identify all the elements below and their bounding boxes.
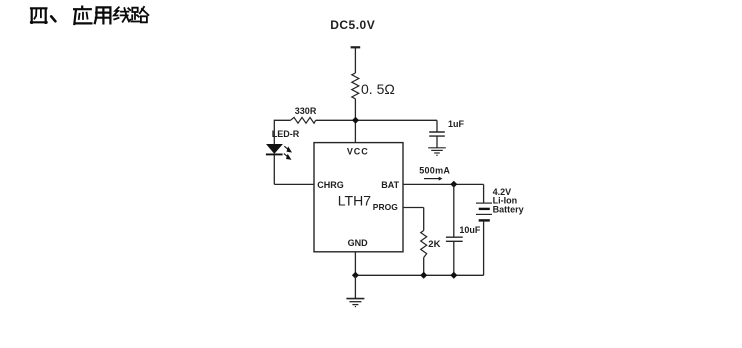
wire GND pin to bottom rail — [354, 252, 356, 275]
wire BAT pin to battery — [403, 183, 484, 185]
char 路 — [131, 7, 148, 22]
main horizontal wire (node A rail) — [274, 119, 437, 121]
svg-text:PROG: PROG — [373, 202, 398, 212]
wire terminal to resistor R1 — [354, 48, 356, 73]
svg-text:2K: 2K — [428, 239, 440, 250]
svg-text:1uF: 1uF — [448, 119, 465, 129]
svg-text:LTH7: LTH7 — [338, 192, 371, 208]
current arrow — [424, 178, 440, 180]
wire battery top stub — [483, 184, 485, 203]
svg-text:CHRG: CHRG — [317, 180, 344, 190]
svg-text:Battery: Battery — [493, 205, 524, 215]
resistor R2 330R (horizontal zigzag) — [291, 117, 316, 123]
svg-text:LED-R: LED-R — [272, 129, 300, 139]
wire ground stub — [354, 275, 356, 298]
resistor R1 0.5ohm (vertical zigzag) — [352, 73, 359, 99]
char 四 — [31, 8, 47, 23]
capacitor C1 1uF — [429, 132, 445, 136]
node B junction dot (BAT / C2) — [451, 182, 457, 188]
char 应 — [74, 7, 91, 24]
svg-text:0. 5Ω: 0. 5Ω — [361, 81, 395, 97]
wire node A rail to capacitor C1 — [436, 120, 438, 132]
svg-text:BAT: BAT — [381, 180, 399, 190]
DC input terminal — [351, 46, 361, 48]
wire LED cathode to CHRG pin — [274, 155, 314, 184]
op IC U1 LTH7 box — [314, 143, 403, 252]
svg-text:GND: GND — [348, 238, 369, 248]
ground (main) — [346, 299, 364, 307]
ideographic comma 、 — [51, 16, 55, 21]
resistor R3 2K (vertical zigzag) — [421, 231, 427, 258]
capacitor C2 10uF — [446, 237, 463, 241]
svg-text:10uF: 10uF — [459, 225, 481, 235]
title 四、应用线路 (drawn strokes) — [31, 7, 148, 24]
junction dot (C2 node) — [451, 272, 457, 278]
wire node B to capacitor C2 — [453, 184, 455, 237]
LED emission arrows — [284, 146, 291, 159]
wire node A rail to LED anode — [273, 120, 275, 145]
wire resistor R3 to bottom rail — [423, 258, 425, 276]
wire capacitor C1 to ground — [436, 136, 438, 147]
svg-text:330R: 330R — [295, 106, 317, 116]
svg-text:DC5.0V: DC5.0V — [330, 18, 375, 32]
svg-text:VCC: VCC — [347, 147, 369, 157]
svg-text:500mA: 500mA — [419, 166, 450, 176]
bottom ground rail wire — [355, 274, 483, 276]
wire capacitor C2 to bottom rail — [453, 241, 455, 275]
char 线 — [114, 7, 131, 21]
junction dot (R3 node) — [421, 272, 427, 278]
junction dot (GND node) — [353, 272, 359, 278]
wire resistor R1 to node A — [354, 99, 356, 143]
ground (under C1) — [428, 148, 446, 156]
LED D1 (triangle + cathode bar) — [267, 144, 282, 153]
battery BT1 plates — [476, 202, 492, 204]
node A junction dot — [353, 117, 359, 123]
char 用 — [95, 7, 111, 23]
wire battery bottom stub — [483, 220, 485, 275]
wire PROG pin to resistor R3 — [403, 208, 424, 231]
